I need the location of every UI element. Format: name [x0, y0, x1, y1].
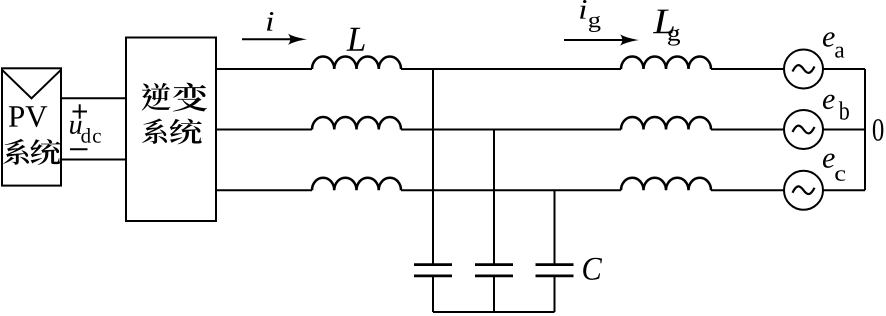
wire phase c L to Lg: [401, 189, 621, 191]
ac source ea: [784, 50, 823, 89]
capacitor C phase c: [536, 265, 574, 276]
wire source ea to neutral bus: [823, 68, 865, 70]
arrow current ig: [564, 34, 639, 45]
label PV xitong: [3, 139, 60, 165]
inductor Lg phase c: [621, 178, 711, 191]
inverter box U1: [126, 38, 216, 222]
arrow current i: [242, 34, 307, 45]
wire phase a L to Lg: [401, 68, 621, 70]
PV array box: [2, 68, 61, 185]
plus sign udc: [73, 104, 88, 118]
capacitor C phase a: [414, 265, 452, 276]
wire dc positive: [61, 97, 126, 99]
wire phase c Lg to source ec: [711, 189, 784, 191]
wire phase b inverter to L: [216, 129, 312, 131]
wire source eb to neutral bus: [823, 129, 865, 131]
label PV: [9, 106, 47, 127]
label nibian inverter: [142, 83, 207, 112]
inductor Lg phase b: [621, 117, 711, 130]
label ig current: [580, 0, 600, 32]
label Lg grid inductor: [653, 10, 680, 46]
label eb: [823, 95, 849, 120]
wire tap phase c down to capacitor: [554, 190, 556, 263]
label xitong inverter: [142, 118, 202, 144]
wire phase b L to Lg: [401, 129, 621, 131]
label ea: [823, 32, 844, 57]
label udc: [70, 121, 101, 143]
wire tap phase b down to capacitor: [493, 130, 495, 264]
wire capacitor c to star bus: [554, 277, 556, 312]
label i current: [267, 12, 273, 31]
inductor L phase a: [312, 57, 401, 70]
wire phase a Lg to source ea: [711, 68, 784, 70]
wire phase b Lg to source eb: [711, 129, 784, 131]
label C capacitor: [583, 258, 602, 280]
inductor L phase c: [312, 178, 401, 191]
inductor L phase b: [312, 117, 401, 130]
minus sign udc: [70, 148, 88, 150]
ac source ec: [784, 171, 823, 210]
neutral bus wire node 0: [864, 69, 866, 190]
wire source ec to neutral bus: [823, 189, 865, 191]
wire phase c inverter to L: [216, 189, 312, 191]
wire capacitor star bus: [433, 311, 555, 313]
inductor Lg phase a: [621, 57, 711, 70]
wire tap phase a down to capacitor: [432, 69, 434, 264]
ac source eb: [784, 110, 823, 149]
label ec: [823, 153, 845, 180]
label node 0: [873, 119, 884, 141]
wire capacitor a to star bus: [432, 277, 434, 312]
label L filter: [346, 28, 364, 51]
wire dc negative: [61, 159, 126, 161]
wire phase a inverter to L: [216, 68, 312, 70]
capacitor C phase b: [475, 265, 513, 276]
wire capacitor b to star bus: [493, 277, 495, 312]
